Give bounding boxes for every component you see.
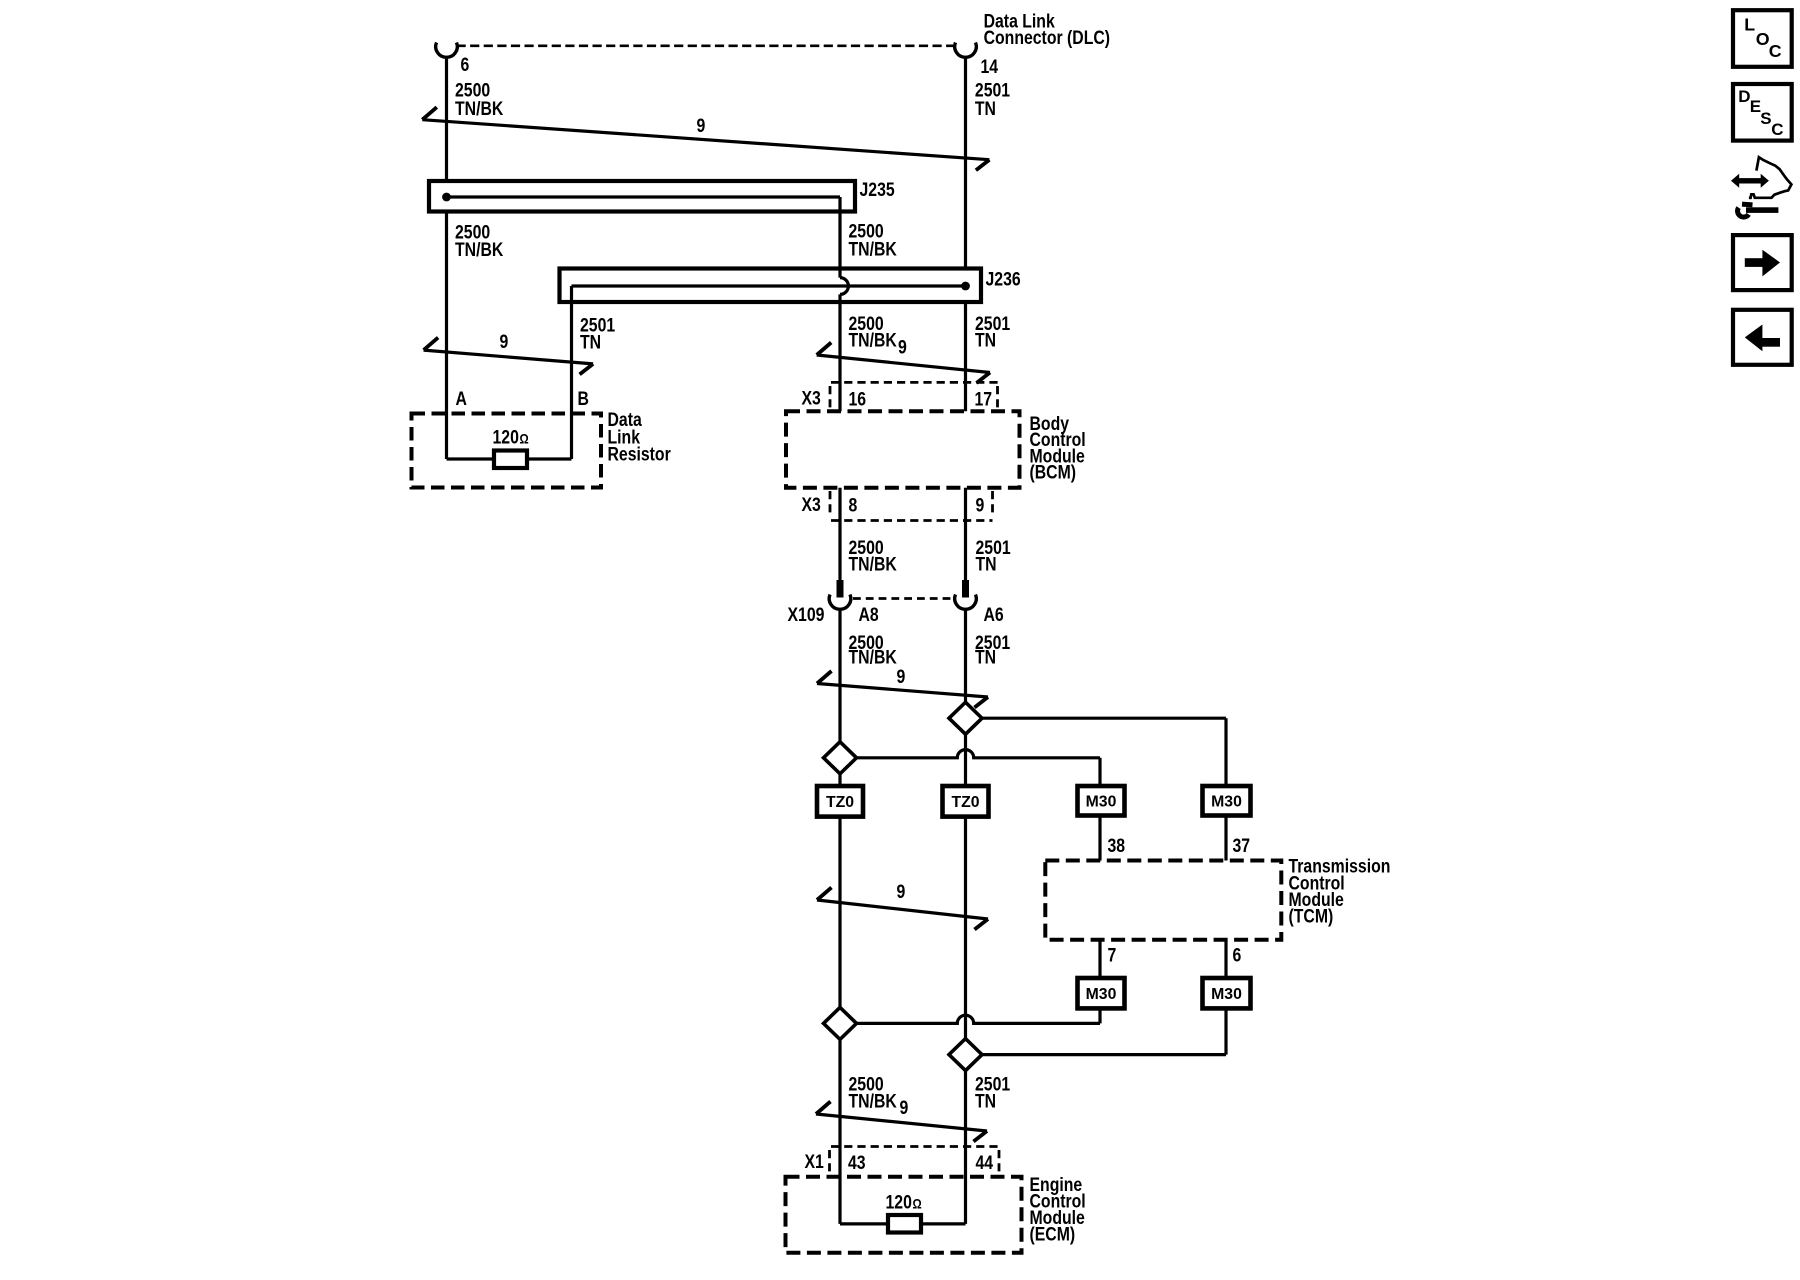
J235 internal bus bar [447, 195, 841, 198]
wire 2501 to ECM [964, 1071, 967, 1224]
svg-text:TN/BK: TN/BK [849, 646, 898, 668]
wire 2500 through J235 to resistor A [445, 211, 448, 459]
ECM label [1030, 1174, 1086, 1245]
X109 dashed link [853, 597, 953, 600]
BCM label [1030, 413, 1086, 483]
svg-text:X109: X109 [788, 604, 825, 626]
Body Control Module dashed box [786, 411, 1020, 487]
svg-text:TN: TN [975, 329, 996, 351]
branch 2500 to M30 left with hop [857, 750, 1101, 758]
svg-text:120: 120 [886, 1191, 913, 1213]
wire 2500 to ECM [838, 1039, 841, 1224]
X3 bottom separator dashes [829, 491, 832, 516]
svg-text:37: 37 [1233, 835, 1251, 857]
X3 top right dashes [996, 386, 999, 410]
svg-text:A: A [456, 387, 468, 409]
connector M30 box 1 [1078, 786, 1125, 816]
svg-text:9: 9 [500, 330, 509, 352]
svg-text:TN: TN [975, 97, 996, 119]
connector M30 box 4 [1203, 978, 1251, 1008]
svg-text:44: 44 [976, 1151, 994, 1173]
svg-text:S: S [1760, 109, 1771, 128]
connector pin 6 cup [436, 43, 458, 58]
svg-text:C: C [1769, 41, 1782, 61]
wire 2500 from J236 to BCM pin 16 [838, 294, 841, 411]
wire label 2500 TN/BK below X109 [849, 632, 898, 668]
svg-text:120: 120 [493, 426, 520, 448]
Engine Control Module dashed box [786, 1177, 1022, 1253]
wire 2500 from DLC pin 6 [445, 57, 448, 181]
Transmission Control Module dashed box [1045, 861, 1281, 940]
svg-text:TN: TN [580, 331, 601, 353]
wire label 2500 TN/BK below J235 left [455, 221, 504, 260]
wire label 2501 TN below X109 [975, 632, 1010, 668]
svg-text:TN: TN [975, 646, 996, 668]
TCM label [1289, 855, 1391, 927]
X3 bottom right dashes [991, 491, 994, 516]
splice diamond 2501 [949, 702, 982, 734]
J236 internal bus bar [572, 284, 966, 287]
svg-text:M30: M30 [1211, 986, 1242, 1003]
svg-text:TN: TN [975, 1090, 996, 1112]
X3 bottom dashed line [831, 519, 993, 522]
svg-text:9: 9 [697, 115, 706, 137]
wire label 2500 TN/BK below J235 right [849, 220, 898, 259]
splice pack J236 outline [560, 269, 982, 303]
double arrow icon [1731, 174, 1739, 188]
svg-text:(ECM): (ECM) [1030, 1223, 1076, 1245]
svg-text:O: O [1756, 29, 1770, 49]
splice diamond 2500 [824, 742, 857, 774]
wire label 2501 TN (pin 14) [975, 79, 1010, 119]
wire label 2501 TN above ECM [975, 1073, 1010, 1111]
splice diamond 2500 lower [824, 1007, 857, 1039]
svg-text:9: 9 [900, 1096, 909, 1118]
svg-text:Ω: Ω [520, 432, 529, 447]
X1 right dashes [998, 1150, 1001, 1174]
wire 2500 TZ0 down [838, 817, 841, 1008]
X3 connector top dashed line [831, 381, 998, 384]
connector TZ0 left box [817, 786, 863, 817]
X109 pin A6 cup [955, 595, 977, 610]
prev page arrow [1762, 338, 1780, 347]
svg-text:Connector (DLC): Connector (DLC) [984, 27, 1110, 49]
svg-text:C: C [1771, 120, 1783, 139]
LOC icon box [1733, 10, 1792, 67]
wire 2501 X109 to splice diamond [964, 609, 967, 702]
prev page arrow box [1733, 310, 1792, 365]
svg-text:J235: J235 [860, 178, 895, 200]
svg-text:TN/BK: TN/BK [849, 1090, 898, 1112]
svg-text:M30: M30 [1211, 794, 1242, 811]
wire label 2501 TN below BCM [976, 536, 1011, 574]
svg-text:9: 9 [976, 494, 985, 516]
wire 2501 from J236 to resistor B [570, 302, 573, 459]
bus arrow 9 resistor [424, 350, 593, 364]
X109 pin A8 cup [829, 595, 851, 610]
svg-text:X3: X3 [802, 494, 822, 516]
bus arrow 9 mid [817, 900, 988, 919]
Data Link Connector (DLC) dashed outline [457, 44, 955, 47]
branch M30-3 to 2500 diamond with hop [1098, 1008, 1101, 1023]
wire label 2500 TN/BK above BCM [849, 313, 898, 351]
J236 junction dot [961, 282, 970, 291]
svg-text:6: 6 [461, 53, 470, 75]
svg-text:A6: A6 [984, 604, 1004, 626]
wire 2501 BCM9 to X109 [964, 488, 967, 580]
Data Link Resistor label [608, 409, 671, 465]
svg-text:TN/BK: TN/BK [455, 239, 504, 261]
svg-text:TN/BK: TN/BK [455, 97, 504, 119]
svg-text:B: B [578, 387, 589, 409]
svg-text:9: 9 [897, 881, 906, 903]
wire label 2500 TN/BK (pin 6) [455, 79, 504, 119]
wire TCM 37 [1224, 816, 1227, 861]
branch M30-4 to 2501 diamond [1224, 1008, 1227, 1054]
svg-text:43: 43 [848, 1151, 866, 1173]
wire 2500 from J235 to J236 hop [838, 211, 841, 277]
bus arrow 9 splices [817, 684, 988, 698]
resistor B lead [527, 457, 572, 460]
resistor R 120ohm [494, 451, 527, 469]
svg-text:TN/BK: TN/BK [849, 238, 898, 260]
svg-text:16: 16 [849, 388, 867, 410]
X3 top separator dashes [829, 386, 832, 410]
svg-text:TN/BK: TN/BK [849, 329, 898, 351]
svg-text:9: 9 [897, 665, 906, 687]
resistor value 120 ohm [493, 426, 529, 448]
bus arrow 9 top [422, 120, 989, 160]
connector TZ0 right box [943, 786, 989, 817]
svg-text:TZ0: TZ0 [951, 794, 979, 811]
connector M30 box 3 [1078, 978, 1125, 1008]
wire TCM 6 [1224, 940, 1227, 978]
svg-text:A8: A8 [859, 604, 879, 626]
branch 2501 to M30 right [982, 717, 1226, 720]
bus arrow 9 BCM [817, 355, 990, 373]
svg-text:8: 8 [849, 494, 858, 516]
svg-text:J236: J236 [986, 268, 1021, 290]
X109 pin A8 male terminal [837, 580, 844, 598]
svg-text:D: D [1738, 87, 1750, 106]
ECM terminating resistor [888, 1215, 921, 1233]
svg-text:L: L [1744, 15, 1755, 35]
svg-text:9: 9 [898, 336, 907, 358]
connector pin 14 cup [955, 43, 977, 58]
svg-text:(TCM): (TCM) [1289, 905, 1334, 927]
wire 2501 diamond to TZ0 [964, 734, 967, 786]
svg-text:Resistor: Resistor [608, 443, 671, 465]
svg-text:17: 17 [975, 388, 993, 410]
bus arrow 9 ECM [816, 1114, 987, 1131]
J235 junction dot [442, 193, 451, 202]
svg-text:X1: X1 [805, 1150, 825, 1172]
wire 2501 from DLC pin 14 [964, 57, 967, 269]
svg-text:X3: X3 [802, 387, 822, 409]
DLC label [984, 10, 1110, 48]
svg-text:TN/BK: TN/BK [849, 553, 898, 575]
splice diamond 2501 lower [949, 1039, 982, 1071]
wire 2500 hop over J236 bus [840, 278, 848, 295]
vehicle outline icon [1749, 157, 1792, 198]
connector M30 box 2 [1203, 786, 1251, 816]
svg-text:TZ0: TZ0 [826, 794, 854, 811]
svg-text:Ω: Ω [913, 1197, 922, 1212]
wire label 2501 TN above BCM [975, 313, 1010, 351]
wire label 2501 TN below J236 [580, 314, 615, 353]
svg-text:6: 6 [1233, 944, 1242, 966]
svg-text:TN: TN [976, 553, 997, 575]
ECM resistor left lead [840, 1222, 888, 1225]
wrench icon [1742, 202, 1753, 208]
X109 pin A6 male terminal [962, 580, 969, 598]
wire label 2500 TN/BK below BCM [849, 536, 898, 574]
svg-text:M30: M30 [1086, 986, 1117, 1003]
splice pack J235 outline [429, 181, 855, 212]
X1 connector top dashed line [831, 1145, 999, 1148]
wire 2501 into BCM pin 17 [964, 302, 967, 411]
Data Link Resistor dashed box [412, 414, 602, 488]
wire 2500 X109 to splice diamond [838, 609, 841, 742]
next page arrow [1745, 258, 1763, 267]
svg-text:M30: M30 [1086, 794, 1117, 811]
svg-text:7: 7 [1108, 944, 1117, 966]
resistor A lead [447, 457, 495, 460]
DESC icon box [1733, 84, 1792, 141]
wire TCM 38 [1098, 816, 1101, 861]
svg-text:(BCM): (BCM) [1030, 461, 1077, 483]
X1 separator dashes [828, 1150, 831, 1174]
wire 2500 diamond to TZ0 [838, 774, 841, 786]
wire 2501 TZ0 down [964, 817, 967, 1039]
ECM resistor right lead [921, 1222, 966, 1225]
wire 2500 BCM8 to X109 [838, 488, 841, 580]
wire label 2500 TN/BK above ECM [849, 1073, 898, 1111]
svg-text:38: 38 [1108, 835, 1126, 857]
ECM resistor value 120 ohm [886, 1191, 922, 1213]
wire TCM 7 [1098, 940, 1101, 978]
svg-text:14: 14 [981, 56, 999, 78]
next page arrow box [1733, 235, 1792, 290]
